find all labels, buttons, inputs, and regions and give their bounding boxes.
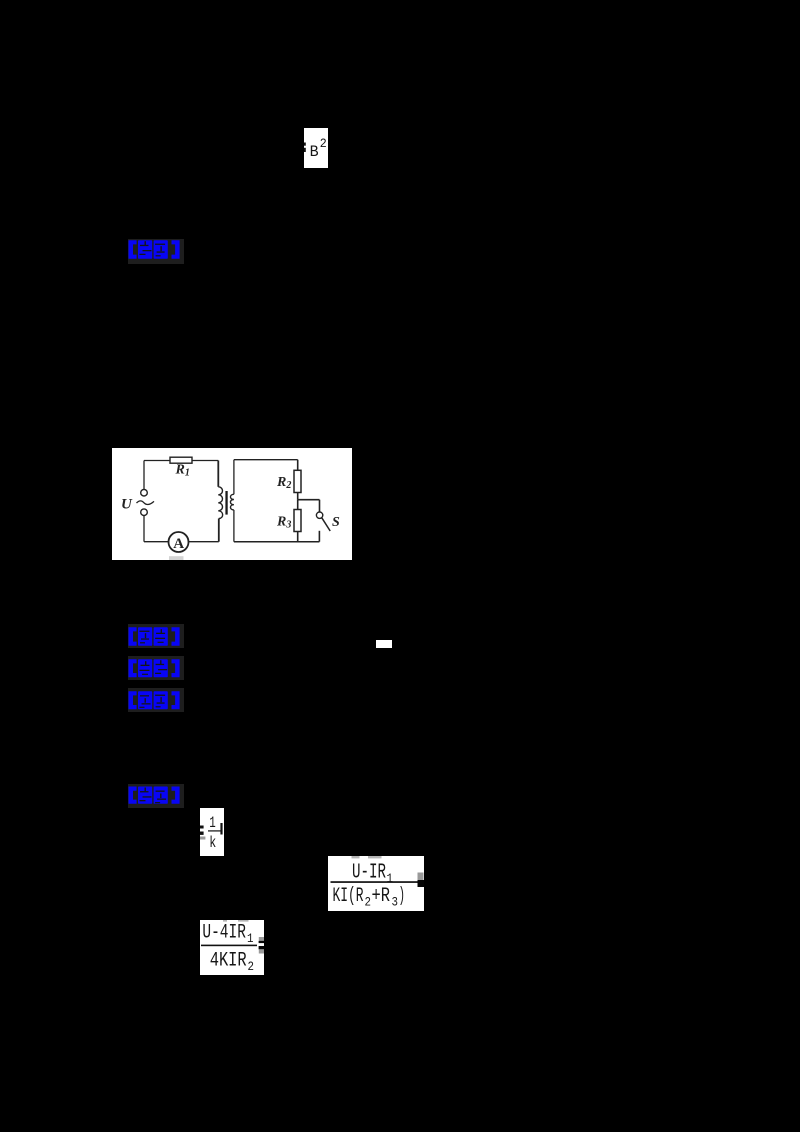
blue label jieda (128, 784, 184, 808)
svg-text:1: 1 (387, 871, 394, 886)
wire left loop top (144, 460, 218, 462)
blue label zhuanti (128, 656, 184, 680)
resistor R3 (294, 510, 301, 532)
svg-text:+R: +R (372, 885, 391, 908)
top edge smudges (223, 920, 227, 922)
circuit diagram image (112, 448, 352, 560)
formula image 1/k (200, 808, 224, 856)
AC tilde (137, 501, 155, 505)
transformer secondary coil (230, 494, 233, 510)
partial proportional symbol at left edge (304, 143, 306, 146)
fraction bar (201, 945, 257, 947)
svg-text:4KIR: 4KIR (210, 950, 247, 973)
svg-text:k: k (209, 834, 216, 852)
switch fixed contact (318, 531, 320, 542)
transformer primary coil (218, 487, 222, 519)
wire left loop bottom right (189, 541, 219, 543)
wire switch branch down to contact (319, 500, 321, 512)
resistor R2 (294, 470, 301, 492)
switch pivot circle (316, 512, 322, 518)
svg-text:B: B (310, 143, 319, 161)
wire R2 bottom to junction (297, 493, 299, 500)
top edge smudges (352, 856, 360, 858)
wire left loop bottom left (144, 541, 170, 543)
svg-text:): ) (399, 885, 406, 908)
partial caption below ammeter (169, 556, 184, 560)
right edge gray square (418, 873, 424, 881)
resistor R1 (170, 457, 192, 463)
svg-text:U: U (121, 497, 133, 513)
partial equals at left edge (200, 826, 204, 829)
wire right loop bottom (234, 541, 320, 543)
svg-text:KI(R: KI(R (333, 885, 364, 908)
wire R3 bottom to bottom wire (297, 532, 299, 542)
formula image B^2 (304, 128, 328, 168)
source terminal upper circle (141, 489, 148, 496)
blue label fenxi (128, 688, 184, 712)
right edge partial equals (259, 937, 264, 941)
fraction bar (331, 881, 418, 883)
svg-text:S: S (332, 515, 340, 530)
right edge black square (418, 880, 425, 887)
svg-text:U-4IR: U-4IR (202, 922, 246, 945)
partial glyph at right edge (220, 823, 222, 835)
wire right side upper to R2 (297, 460, 299, 471)
wire junction down to R3 (297, 500, 299, 510)
blue label kaodian (128, 624, 184, 648)
svg-text:U-IR: U-IR (352, 861, 386, 884)
svg-text:3: 3 (392, 895, 399, 910)
svg-text:1: 1 (247, 931, 254, 946)
svg-text:1: 1 (209, 814, 216, 832)
wire right loop left side lower (233, 510, 235, 542)
formula image (U-4IR1)/(4KIR2) (200, 920, 264, 975)
wire junction horizontal to switch branch (298, 499, 320, 501)
blue label 1 fenxi-top (128, 239, 184, 264)
svg-text:A: A (173, 536, 184, 552)
svg-text:2: 2 (320, 136, 327, 151)
wire right loop top (234, 459, 298, 461)
formula image (U-IR1)/(KI(R2+R3)) (328, 856, 424, 911)
switch blade (322, 518, 330, 531)
wire left loop left side lower (143, 516, 145, 542)
svg-text:2: 2 (365, 895, 372, 910)
small white formula image on kaodian line (376, 640, 392, 648)
transformer core (225, 491, 227, 515)
ammeter A (169, 532, 189, 552)
fraction bar (208, 830, 221, 831)
wire left loop left side upper (143, 461, 145, 490)
wire right loop left side upper (233, 460, 235, 495)
svg-text:2: 2 (248, 959, 255, 974)
wire right side of left loop (217, 461, 219, 487)
source terminal lower circle (141, 509, 148, 516)
